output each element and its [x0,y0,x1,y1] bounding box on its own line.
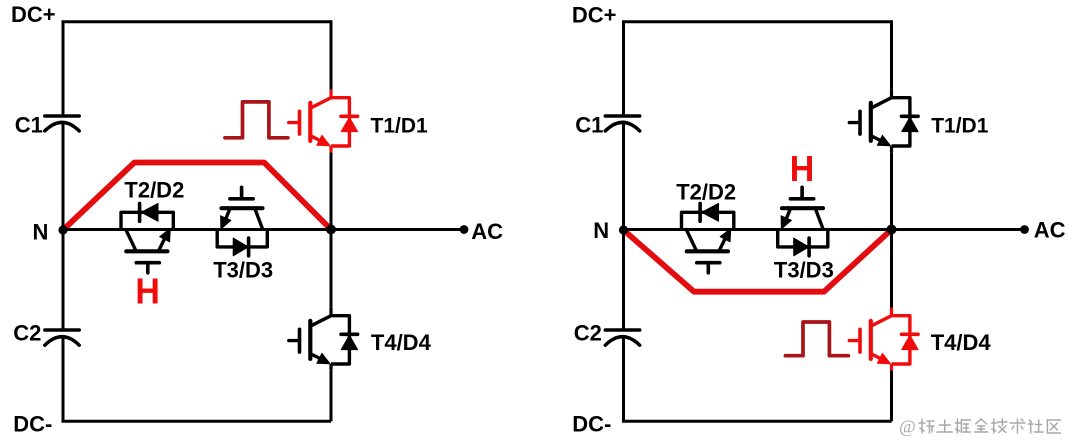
wire: right circuit right leg rail middle segment [890,152,893,307]
transistor T2 (left circuit) IGBT horizontal [126,229,170,273]
wire: right circuit DC+ top bus [624,22,892,116]
wire: left circuit red commutation path N to AC node (upper trapezoid) [63,163,331,231]
wire: right circuit right leg rail top segment [890,20,893,89]
svg-text:C1: C1 [15,112,43,137]
diode D2 (right circuit) [682,203,734,229]
transistor T2 (right circuit) IGBT horizontal [686,229,730,273]
svg-text:H: H [790,148,815,189]
node AC terminal dot (left circuit) [460,225,469,234]
capacitor C2 (right circuit) [605,330,639,345]
wire: right circuit neutral branch N to AC output [624,228,1025,231]
capacitor C2 (left circuit) [45,330,79,345]
svg-text:T1/D1: T1/D1 [931,115,989,138]
wire: left circuit neutral branch N to AC output [63,228,464,231]
node AC-leg junction dot (left circuit) [326,225,336,235]
wire: left circuit left DC-link rail between C1 and C2 [62,124,65,331]
wire: left circuit right leg rail middle segment [330,152,333,307]
node AC terminal dot (right circuit) [1020,225,1029,234]
diode D3 (right circuit) [778,230,828,256]
wire: left circuit DC- bottom bus [63,337,331,422]
svg-text:T3/D3: T3/D3 [213,258,273,283]
svg-text:T3/D3: T3/D3 [774,258,834,283]
svg-text:N: N [33,219,49,244]
diode D1 (right circuit) antiparallel [892,98,919,146]
wire: right circuit DC- bottom bus [624,337,892,422]
wire: left circuit DC+ top bus [63,22,331,116]
wire: left circuit right leg rail bottom segment [330,370,333,421]
transistor T1 (left circuit) IGBT [289,90,331,153]
transistor T1 (right circuit) IGBT [849,90,891,153]
wire: right circuit right leg rail bottom segment [890,370,893,421]
svg-text:T2/D2: T2/D2 [124,177,184,202]
transistor T3 (right circuit) IGBT horizontal [781,187,823,229]
diode D4 (left circuit) antiparallel [331,316,358,364]
svg-text:C2: C2 [13,321,41,346]
wire: left circuit right leg rail top segment [330,20,333,89]
svg-text:DC-: DC- [572,412,611,437]
svg-text:@: @ [899,417,916,437]
svg-text:N: N [593,218,609,243]
svg-text:C2: C2 [574,321,602,346]
watermark @xitu juejin community (gray CJK) [899,417,1060,437]
wire: right circuit left DC-link rail between C1 and C2 [622,124,625,331]
svg-text:H: H [135,271,160,312]
svg-text:AC: AC [1034,218,1066,243]
svg-text:T2/D2: T2/D2 [676,179,736,204]
capacitor C1 (left circuit) [45,116,79,131]
svg-text:T4/D4: T4/D4 [931,330,992,355]
diode D3 (left circuit) [217,230,267,256]
node N junction dot (left circuit) [58,225,67,234]
diode D1 (left circuit) antiparallel [331,98,358,146]
svg-text:DC+: DC+ [572,3,617,28]
capacitor C1 (right circuit) [605,116,639,131]
svg-text:T1/D1: T1/D1 [371,115,429,138]
transistor T3 (left circuit) IGBT horizontal [221,187,263,229]
node N junction dot (right circuit) [619,225,628,234]
svg-text:DC+: DC+ [11,2,56,27]
transistor T4 (right circuit) IGBT [849,308,891,371]
svg-text:DC-: DC- [13,412,52,437]
node AC-leg junction dot (right circuit) [887,225,897,235]
gate pulse waveform at T4 (right circuit) [785,322,848,356]
svg-text:C1: C1 [575,112,603,137]
svg-text:T4/D4: T4/D4 [371,330,432,355]
gate pulse waveform at T1 (left circuit) [225,102,288,138]
wire: right circuit red commutation path N to AC node (lower trapezoid) [624,230,892,292]
transistor T4 (left circuit) IGBT [289,308,331,371]
diode D4 (right circuit) antiparallel [892,316,919,364]
diode D2 (left circuit) [121,203,173,229]
svg-text:AC: AC [471,219,503,244]
